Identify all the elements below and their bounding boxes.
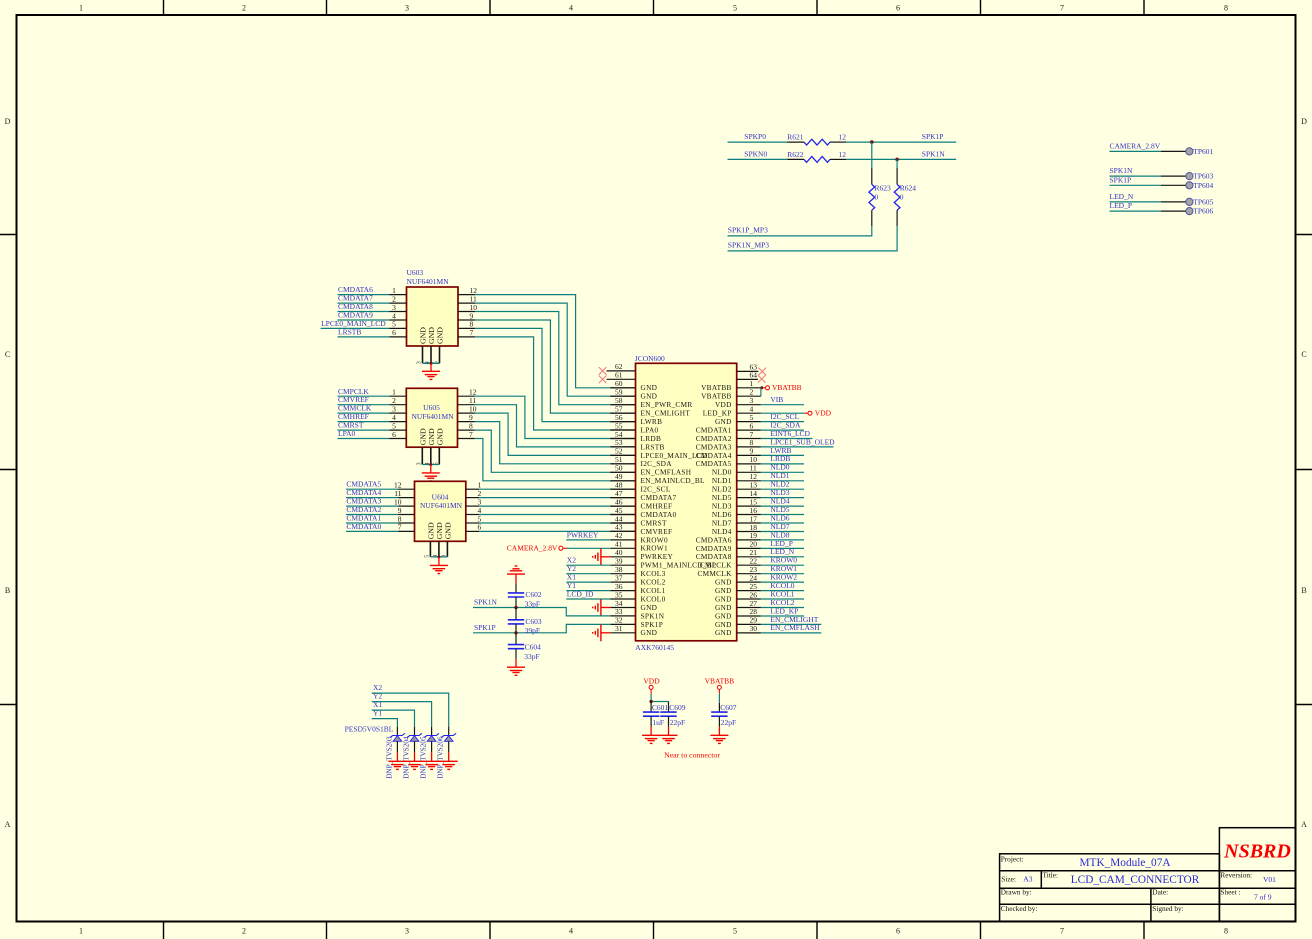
svg-text:JCON600: JCON600 xyxy=(635,354,665,363)
wire VDD to C601/C609 xyxy=(650,694,652,702)
svg-text:5: 5 xyxy=(424,555,430,558)
svg-text:Drawn by:: Drawn by: xyxy=(1001,888,1032,897)
JCON600 pin 61 lead xyxy=(607,378,636,380)
svg-text:7 of 9: 7 of 9 xyxy=(1254,892,1272,901)
wire U604 pin 6 to JCON600 pin 43 xyxy=(466,530,479,532)
U604 GND pin 4 xyxy=(438,541,440,557)
frame column ticks top/bottom xyxy=(163,0,165,15)
frame row ticks left/right xyxy=(0,234,17,236)
JCON600 pin 34 lead xyxy=(610,607,635,609)
buffer U605 NUF6401MN body xyxy=(406,388,457,447)
wire LED_N at JCON600 pin 21 xyxy=(761,556,804,558)
wire SPK1N to TP603 xyxy=(1110,175,1162,177)
wire U605 pin 7 to JCON600 pin 49 xyxy=(458,438,475,440)
wire U604 pin 5 to JCON600 pin 44 xyxy=(466,522,479,524)
junction U605 gnd xyxy=(429,463,432,466)
svg-text:33pF: 33pF xyxy=(525,599,540,608)
svg-text:Near to connector: Near to connector xyxy=(664,750,720,759)
wire KCOL1 at JCON600 pin 26 xyxy=(761,598,804,600)
wire U605 pin 8 to JCON600 pin 50 xyxy=(458,429,475,431)
wire U603 pin 10 to JCON600 pin 58 xyxy=(458,311,475,313)
wire SPK1N to JCON600 pin 33 xyxy=(473,608,610,616)
JCON600 pin 10 lead xyxy=(737,463,761,465)
wire NLD2 at JCON600 pin 13 xyxy=(761,488,804,490)
svg-text:LCD_CAM_CONNECTOR: LCD_CAM_CONNECTOR xyxy=(1071,874,1200,886)
ground above C602 (inverted) xyxy=(507,573,525,575)
svg-text:22pF: 22pF xyxy=(670,718,685,727)
svg-text:64: 64 xyxy=(750,371,758,380)
wire KROW0 at JCON600 pin 22 xyxy=(761,564,804,566)
JCON600 pin 52 lead xyxy=(610,454,635,456)
wire U603 pin 12 to JCON600 pin 60 xyxy=(458,294,475,296)
no-connect X pin 63 xyxy=(758,368,766,376)
wire CMDATA7 to U603 pin 2 xyxy=(338,302,390,304)
svg-text:GND: GND xyxy=(443,522,452,539)
JCON600 pin 62 lead xyxy=(607,370,636,372)
svg-text:TP605: TP605 xyxy=(1193,198,1213,207)
svg-text:6: 6 xyxy=(478,523,482,532)
svg-text:LED_N: LED_N xyxy=(1110,192,1134,201)
wire LPCE1_SUB_OLED at JCON600 pin 8 xyxy=(761,446,834,448)
wire SPK1P to TP604 xyxy=(1110,184,1162,186)
svg-text:SPKP0: SPKP0 xyxy=(744,132,766,141)
junction U604 gnd xyxy=(437,555,440,558)
JCON600 pin 59 lead xyxy=(610,395,635,397)
test point TP606 xyxy=(1186,208,1193,215)
wire SPKN0 to R622 xyxy=(728,158,788,160)
svg-text:VBATBB: VBATBB xyxy=(772,383,802,392)
wire CMDATA2 to U604 pin 9 xyxy=(346,514,398,516)
wire NLD5 at JCON600 pin 16 xyxy=(761,514,804,516)
svg-text:4: 4 xyxy=(569,4,573,13)
JCON600 pin 27 lead xyxy=(737,607,761,609)
svg-text:C604: C604 xyxy=(525,643,542,652)
svg-text:7: 7 xyxy=(469,430,473,439)
svg-text:30: 30 xyxy=(750,624,758,633)
U603 GND pin 3 xyxy=(422,346,424,363)
svg-text:DNP_TVS203: DNP_TVS203 xyxy=(385,736,393,779)
no-connect X pin 64 xyxy=(758,375,766,383)
JCON600 pin 51 lead xyxy=(610,463,635,465)
capacitor C601 xyxy=(650,702,652,713)
JCON600 pin 22 lead xyxy=(737,564,761,566)
wire CMDATA0 to U604 pin 7 xyxy=(346,530,398,532)
U605 GND pin 3 xyxy=(421,447,423,464)
svg-text:R623: R623 xyxy=(875,184,892,193)
svg-text:SPKN0: SPKN0 xyxy=(744,150,767,159)
svg-text:SPK1P: SPK1P xyxy=(474,623,496,632)
svg-text:LRSTB: LRSTB xyxy=(338,327,361,336)
wire SPK1N down to R624 xyxy=(896,159,898,168)
ground below TVS206 xyxy=(448,752,450,761)
TVS diode TVS205 xyxy=(431,727,433,736)
wire X2 at JCON600 pin 39 xyxy=(566,564,610,566)
wire U605 pin 9 to JCON600 pin 51 xyxy=(458,421,475,423)
wire R624 to SPK1N_MP3 xyxy=(728,226,898,251)
JCON600 pin 32 lead xyxy=(610,623,635,625)
ground at JCON600 pin 40 xyxy=(601,556,610,558)
JCON600 pin 8 lead xyxy=(737,446,761,448)
svg-text:Date:: Date: xyxy=(1152,888,1168,897)
svg-text:C: C xyxy=(1301,350,1306,359)
U604 GND pin 3 xyxy=(446,541,448,557)
wire U604 pin 1 to JCON600 pin 48 xyxy=(466,488,479,490)
svg-text:DNP_TVS206: DNP_TVS206 xyxy=(437,736,445,779)
svg-text:B: B xyxy=(1301,586,1306,595)
svg-text:GND: GND xyxy=(435,428,444,445)
ground below C607 xyxy=(718,716,720,726)
junction U603 gnd xyxy=(430,362,433,365)
svg-text:MTK_Module_07A: MTK_Module_07A xyxy=(1080,857,1172,869)
no-connect X pin 62 xyxy=(599,367,607,375)
svg-text:2: 2 xyxy=(242,927,246,936)
svg-text:33pF: 33pF xyxy=(524,652,539,661)
svg-text:R624: R624 xyxy=(900,184,917,193)
svg-text:C607: C607 xyxy=(720,703,737,712)
svg-text:7: 7 xyxy=(1060,4,1064,13)
JCON600 pin 26 lead xyxy=(737,598,761,600)
svg-text:0: 0 xyxy=(875,193,879,202)
svg-text:A: A xyxy=(1301,820,1307,829)
wire NLD6 at JCON600 pin 17 xyxy=(761,522,804,524)
svg-text:NUF6401MN: NUF6401MN xyxy=(420,501,463,510)
wire U603 gnd tie xyxy=(423,362,440,364)
power port VDD at pin 4 xyxy=(761,412,805,414)
wire EN_CMFLASH at JCON600 pin 30 xyxy=(761,632,821,634)
svg-text:12: 12 xyxy=(839,133,847,142)
JCON600 pin 55 lead xyxy=(610,429,635,431)
wire SPK1P to JCON600 pin 32 xyxy=(473,624,610,632)
wire CMMCLK to U605 pin 3 xyxy=(338,412,390,414)
wire LED_P at JCON600 pin 20 xyxy=(761,547,804,549)
JCON600 pin 44 lead xyxy=(610,522,635,524)
svg-text:7: 7 xyxy=(1060,927,1064,936)
svg-text:22pF: 22pF xyxy=(721,718,736,727)
title block grid xyxy=(1000,854,1220,921)
svg-text:PWRKEY: PWRKEY xyxy=(567,530,599,539)
wire CAMERA_2.8V to TP601 xyxy=(1110,150,1162,152)
JCON600 pin 60 lead xyxy=(610,387,635,389)
wire U603 pin 11 to JCON600 pin 59 xyxy=(458,302,475,304)
svg-text:CMDATA0: CMDATA0 xyxy=(346,522,381,531)
svg-text:A: A xyxy=(5,820,11,829)
wire KROW2 at JCON600 pin 24 xyxy=(761,581,804,583)
resistor R624 xyxy=(896,168,898,184)
TVS diode TVS204 xyxy=(414,727,416,736)
svg-text:0: 0 xyxy=(900,193,904,202)
junction SPKP0/R623 node xyxy=(870,140,874,144)
JCON600 pin 1 lead xyxy=(737,387,761,389)
wire KCOL2 at JCON600 pin 27 xyxy=(761,607,804,609)
svg-text:R621: R621 xyxy=(787,133,804,142)
svg-text:39pF: 39pF xyxy=(525,626,540,635)
wire LED_P to TP606 xyxy=(1110,210,1162,212)
wire CMDATA9 to U603 pin 4 xyxy=(338,319,390,321)
U603 GND pin 5 xyxy=(439,346,441,363)
JCON600 pin 15 lead xyxy=(737,505,761,507)
JCON600 pin 13 lead xyxy=(737,488,761,490)
svg-text:Sheet :: Sheet : xyxy=(1220,888,1240,897)
junction SPK1P/C603 xyxy=(514,631,517,634)
svg-text:SPK1P_MP3: SPK1P_MP3 xyxy=(728,226,768,235)
JCON600 pin 42 lead xyxy=(610,539,635,541)
svg-text:1: 1 xyxy=(79,927,83,936)
svg-text:SPK1P: SPK1P xyxy=(922,132,944,141)
JCON600 pin 5 lead xyxy=(737,421,761,423)
JCON600 pin 31 lead xyxy=(610,632,635,634)
wire EINT6_LCD at JCON600 pin 7 xyxy=(761,438,813,440)
svg-text:DNP_TVS204: DNP_TVS204 xyxy=(403,736,411,779)
JCON600 pin 11 lead xyxy=(737,471,761,473)
svg-text:R622: R622 xyxy=(787,150,804,159)
U604 GND pin 5 xyxy=(429,541,431,557)
JCON600 pin 41 lead xyxy=(610,547,635,549)
JCON600 pin 29 lead xyxy=(737,623,761,625)
JCON600 pin 12 lead xyxy=(737,480,761,482)
wire CMDATA5 to U604 pin 12 xyxy=(346,488,398,490)
wire LED_KP at JCON600 pin 28 xyxy=(761,615,804,617)
svg-text:GND: GND xyxy=(436,327,445,344)
ground below C609 xyxy=(668,716,670,726)
wire KROW1 at JCON600 pin 23 xyxy=(761,573,804,575)
svg-text:EN_CMFLASH: EN_CMFLASH xyxy=(770,623,820,632)
JCON600 pin 25 lead xyxy=(737,590,761,592)
svg-text:7: 7 xyxy=(398,523,402,532)
wire CMDATA8 to U603 pin 3 xyxy=(338,311,390,313)
JCON600 pin 46 lead xyxy=(610,505,635,507)
power port VBATBB at pin 1 xyxy=(760,386,763,389)
svg-text:U605: U605 xyxy=(423,403,440,412)
svg-text:VDD: VDD xyxy=(815,409,832,418)
ground U603 xyxy=(430,363,432,371)
JCON600 pin 24 lead xyxy=(737,581,761,583)
svg-text:D: D xyxy=(1301,117,1307,126)
svg-text:6: 6 xyxy=(896,4,900,13)
wire X1 at JCON600 pin 37 xyxy=(566,581,610,583)
wire X1 to TVS diode xyxy=(372,710,415,727)
JCON600 pin 3 lead xyxy=(737,404,761,406)
wire LPA0 to U605 pin 6 xyxy=(338,438,390,440)
wire Y2 to TVS diode xyxy=(372,702,432,727)
wire U603 pin 7 to JCON600 pin 55 xyxy=(458,336,475,338)
svg-text:Checked by:: Checked by: xyxy=(1001,904,1038,913)
JCON600 pin 14 lead xyxy=(737,497,761,499)
ground U604 xyxy=(438,557,440,566)
wire NLD8 at JCON600 pin 19 xyxy=(761,539,804,541)
U605 GND pin 4 xyxy=(430,447,432,464)
svg-text:GND: GND xyxy=(641,628,658,637)
wire KCOL0 at JCON600 pin 25 xyxy=(761,590,804,592)
svg-text:CAMERA_2.8V: CAMERA_2.8V xyxy=(1110,142,1161,151)
svg-text:C603: C603 xyxy=(525,617,542,626)
resistor R622 xyxy=(788,158,805,160)
svg-text:5: 5 xyxy=(733,927,737,936)
svg-text:TP604: TP604 xyxy=(1193,181,1213,190)
wire LPCE0_MAIN_LCD to U603 pin 5 xyxy=(321,327,390,329)
svg-text:6: 6 xyxy=(392,430,396,439)
wire U605 gnd tie xyxy=(422,464,439,466)
JCON600 pin 21 lead xyxy=(737,556,761,558)
JCON600 pin 49 lead xyxy=(610,480,635,482)
capacitor C604 xyxy=(515,633,517,645)
JCON600 pin 30 lead xyxy=(737,632,761,634)
svg-text:SPK1N_MP3: SPK1N_MP3 xyxy=(728,241,770,250)
svg-text:Title:: Title: xyxy=(1043,871,1059,880)
JCON600 pin 47 lead xyxy=(610,497,635,499)
svg-text:U604: U604 xyxy=(432,492,449,501)
wire LCD_ID at JCON600 pin 35 xyxy=(566,598,610,600)
svg-text:VBATBB: VBATBB xyxy=(705,677,735,686)
wire U603 pin 9 to JCON600 pin 57 xyxy=(458,319,475,321)
JCON600 pin 17 lead xyxy=(737,522,761,524)
JCON600 pin 36 lead xyxy=(610,590,635,592)
U603 GND pin 4 xyxy=(430,346,432,363)
wire X2 to TVS diode xyxy=(372,693,449,727)
svg-text:PESD5V0S1BL: PESD5V0S1BL xyxy=(345,724,394,733)
svg-text:3: 3 xyxy=(417,361,423,364)
wire NLD1 at JCON600 pin 12 xyxy=(761,480,804,482)
svg-text:X2: X2 xyxy=(373,683,382,692)
svg-text:SPK1P: SPK1P xyxy=(1110,175,1132,184)
JCON600 pin 53 lead xyxy=(610,446,635,448)
wire U605 pin 11 to JCON600 pin 53 xyxy=(458,404,475,406)
JCON600 pin 18 lead xyxy=(737,531,761,533)
svg-text:3: 3 xyxy=(405,4,409,13)
wire CMDATA1 to U604 pin 8 xyxy=(346,522,398,524)
capacitor C602 xyxy=(515,583,517,593)
JCON600 pin 4 lead xyxy=(737,412,761,414)
capacitor C607 xyxy=(718,703,720,712)
JCON600 pin 7 lead xyxy=(737,438,761,440)
JCON600 pin 6 lead xyxy=(737,429,761,431)
test point TP601 xyxy=(1186,148,1193,155)
svg-text:6: 6 xyxy=(392,328,396,337)
JCON600 pin 50 lead xyxy=(610,471,635,473)
wire NLD7 at JCON600 pin 18 xyxy=(761,531,804,533)
svg-text:Size:: Size: xyxy=(1001,874,1016,883)
wire LED_N to TP605 xyxy=(1110,201,1162,203)
TVS diode TVS206 xyxy=(448,727,450,736)
JCON600 pin 35 lead xyxy=(610,598,635,600)
no-connect X pin 61 xyxy=(599,376,607,384)
JCON600 pin 16 lead xyxy=(737,514,761,516)
wire Y1 at JCON600 pin 36 xyxy=(566,590,610,592)
svg-text:TP603: TP603 xyxy=(1193,172,1213,181)
svg-text:31: 31 xyxy=(615,624,623,633)
svg-text:3: 3 xyxy=(416,462,422,465)
JCON600 pin 54 lead xyxy=(610,438,635,440)
resistor R623 xyxy=(871,168,873,184)
wire CMHREF to U605 pin 4 xyxy=(338,421,390,423)
JCON600 pin 20 lead xyxy=(737,547,761,549)
wire R621 to SPK1P xyxy=(846,141,956,143)
wire VIB at JCON600 pin 3 xyxy=(761,404,804,406)
wire NLD3 at JCON600 pin 14 xyxy=(761,497,804,499)
JCON600 pin 28 lead xyxy=(737,615,761,617)
wire U604 gnd tie xyxy=(430,556,447,558)
svg-text:LED_P: LED_P xyxy=(1110,201,1133,210)
svg-text:12: 12 xyxy=(839,150,847,159)
svg-text:3: 3 xyxy=(405,927,409,936)
wire CMRST to U605 pin 5 xyxy=(338,429,390,431)
svg-text:CAMERA_2.8V: CAMERA_2.8V xyxy=(507,544,558,553)
wire pin 2 to VBATBB node xyxy=(760,388,762,396)
ground below C601 xyxy=(650,716,652,726)
svg-text:4: 4 xyxy=(569,927,573,936)
wire SPKP0 to R621 xyxy=(728,141,788,143)
ground below TVS203 xyxy=(396,752,398,761)
svg-text:D: D xyxy=(5,117,11,126)
ground U605 xyxy=(430,465,432,473)
wire EN_CMLIGHT at JCON600 pin 29 xyxy=(761,623,821,625)
ground below TVS204 xyxy=(414,752,416,761)
ground below TVS205 xyxy=(431,752,433,761)
buffer U603 NUF6401MN body xyxy=(407,287,459,346)
JCON600 pin 37 lead xyxy=(610,581,635,583)
wire R622 to SPK1N xyxy=(846,158,956,160)
svg-text:8: 8 xyxy=(1224,4,1228,13)
wire U604 pin 3 to JCON600 pin 46 xyxy=(466,505,479,507)
JCON600 pin 19 lead xyxy=(737,539,761,541)
wire U605 pin 10 to JCON600 pin 52 xyxy=(458,412,475,414)
svg-text:1: 1 xyxy=(79,4,83,13)
wire LRSTB to U603 pin 6 xyxy=(338,336,390,338)
svg-text:TP601: TP601 xyxy=(1193,147,1213,156)
wire LWRB at JCON600 pin 9 xyxy=(761,454,804,456)
svg-text:A3: A3 xyxy=(1023,874,1032,883)
capacitor C603 xyxy=(515,608,517,620)
JCON600 pin 23 lead xyxy=(737,573,761,575)
U605 GND pin 5 xyxy=(438,447,440,464)
JCON600 pin 2 lead xyxy=(737,395,761,397)
wire Y1 to TVS diode xyxy=(372,719,398,727)
svg-text:7: 7 xyxy=(470,328,474,337)
svg-text:6: 6 xyxy=(896,927,900,936)
svg-text:Project:: Project: xyxy=(1001,854,1024,863)
wire R623 to SPK1P_MP3 xyxy=(728,226,872,236)
resistor R621 xyxy=(788,141,805,143)
svg-text:Signed by:: Signed by: xyxy=(1152,904,1183,913)
JCON600 pin 48 lead xyxy=(610,488,635,490)
ground at JCON600 pin 34 xyxy=(601,607,610,609)
wire NLD0 at JCON600 pin 11 xyxy=(761,471,804,473)
svg-text:1uF: 1uF xyxy=(652,718,664,727)
wire U604 pin 4 to JCON600 pin 45 xyxy=(466,514,479,516)
JCON600 pin 63 lead xyxy=(737,370,759,372)
svg-text:VIB: VIB xyxy=(770,395,783,404)
svg-text:TP606: TP606 xyxy=(1193,207,1213,216)
JCON600 pin 43 lead xyxy=(610,530,635,532)
connector JCON600 AXK760145 body xyxy=(636,363,737,641)
svg-text:GND: GND xyxy=(715,628,732,637)
wire U605 pin 12 to JCON600 pin 54 xyxy=(458,395,475,397)
test point TP605 xyxy=(1186,198,1193,205)
test point TP604 xyxy=(1186,182,1193,189)
wire U604 pin 2 to JCON600 pin 47 xyxy=(466,497,479,499)
wire U603 pin 8 to JCON600 pin 56 xyxy=(458,327,475,329)
wire Y2 at JCON600 pin 38 xyxy=(566,573,610,575)
svg-text:B: B xyxy=(5,586,10,595)
svg-text:C602: C602 xyxy=(525,590,542,599)
wire PWRKEY at JCON600 pin 42 xyxy=(566,539,610,541)
ground below C604 xyxy=(515,649,517,659)
svg-text:NUF6401MN: NUF6401MN xyxy=(411,412,454,421)
wire CMDATA3 to U604 pin 10 xyxy=(346,505,398,507)
svg-text:VDD: VDD xyxy=(643,677,660,686)
JCON600 pin 58 lead xyxy=(610,404,635,406)
svg-text:NUF6401MN: NUF6401MN xyxy=(407,277,450,286)
JCON600 pin 45 lead xyxy=(610,514,635,516)
